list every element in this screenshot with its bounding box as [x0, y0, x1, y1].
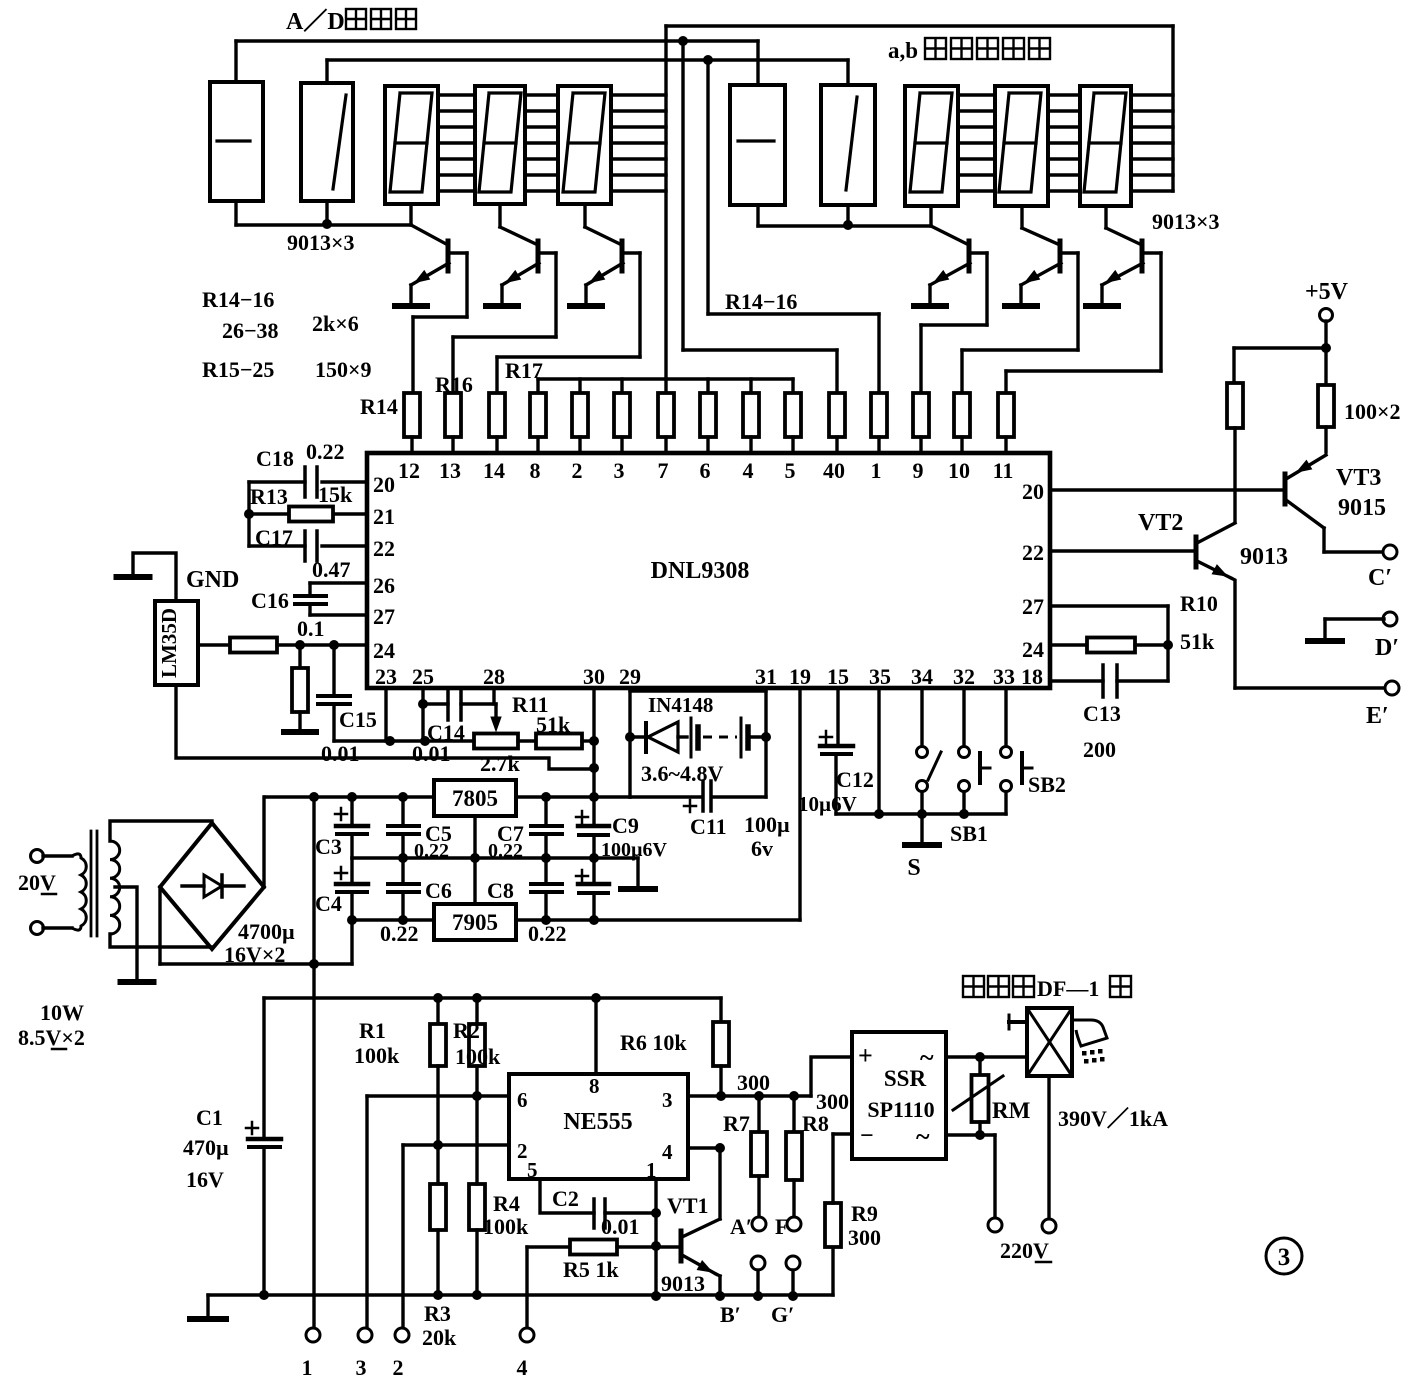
junction R11 right — [589, 736, 599, 746]
svg-text:26−38: 26−38 — [222, 318, 279, 343]
svg-text:20: 20 — [373, 472, 395, 497]
svg-text:C1: C1 — [196, 1105, 223, 1130]
sensor U2 LM35D — [155, 601, 198, 685]
svg-text:E′: E′ — [1366, 703, 1389, 729]
junction VT1 emitter on ground rail — [715, 1291, 725, 1301]
svg-text:220V: 220V — [1000, 1238, 1049, 1263]
wire center tap to ground — [115, 887, 137, 979]
svg-text:R14−16: R14−16 — [202, 287, 274, 312]
svg-text:R10: R10 — [1180, 591, 1218, 616]
ground — [486, 303, 518, 309]
wire NE555 V+ rail — [264, 996, 721, 999]
segment bus lines right group — [958, 93, 995, 96]
svg-text:R14−16: R14−16 — [725, 289, 797, 314]
svg-text:22: 22 — [1022, 540, 1044, 565]
svg-text:16V×2: 16V×2 — [224, 942, 285, 967]
svg-text:R9: R9 — [851, 1201, 878, 1226]
switch S at pin 34 — [920, 688, 923, 747]
IC U1 DNL9308 — [367, 453, 1050, 688]
svg-text:RM: RM — [992, 1098, 1031, 1123]
dashed wire between cells — [703, 736, 737, 739]
terminal E' — [1385, 681, 1399, 695]
regulator U3 7805 — [434, 780, 516, 816]
svg-text:32: 32 — [953, 664, 975, 689]
wire pin 8 to rail — [594, 998, 597, 1074]
junction diode row left — [625, 732, 635, 742]
junction pin1 ground — [651, 1291, 661, 1301]
svg-text:5: 5 — [785, 458, 796, 483]
valve shower head — [1072, 1020, 1107, 1046]
resistor R7 300 — [757, 1096, 760, 1132]
svg-text:6: 6 — [517, 1088, 528, 1112]
enclosure of preset display group — [666, 24, 1173, 27]
svg-text:390V／1kA: 390V／1kA — [1058, 1106, 1168, 1131]
resistor 100 left of pair — [1232, 348, 1235, 383]
common wire left cells 1-3 — [234, 201, 237, 225]
ground S — [920, 814, 923, 842]
svg-text:+: + — [858, 1041, 873, 1070]
resistor 100 right of pair — [1324, 348, 1327, 385]
svg-text:9013: 9013 — [661, 1271, 705, 1296]
diode D1 IN4148 — [630, 735, 646, 738]
potentiometer RP 2.7k — [474, 734, 518, 749]
svg-text:21: 21 — [373, 504, 395, 529]
pushbutton SB1 at pin 32 — [962, 688, 965, 747]
svg-text:LM35D: LM35D — [157, 608, 181, 678]
wire pin 3 output — [688, 1094, 811, 1097]
capacitor C2 0.01 pin5 to pin1 — [540, 1179, 594, 1213]
svg-text:VT2: VT2 — [1138, 510, 1183, 536]
junction R1/R3 on pin2 wire — [433, 1140, 443, 1150]
transistor VT2 9013 — [1194, 537, 1199, 567]
svg-text:S: S — [907, 855, 920, 881]
svg-text:C15: C15 — [339, 707, 377, 732]
capacitor C12 10u6V at pin 15 — [836, 688, 839, 746]
ground center tap — [121, 979, 154, 985]
svg-text:100×2: 100×2 — [1344, 399, 1401, 424]
wire bridge + to rail — [262, 797, 265, 887]
svg-text:30: 30 — [583, 664, 605, 689]
svg-text:0.22: 0.22 — [380, 921, 419, 946]
wire +V rail — [265, 795, 434, 798]
svg-text:D′: D′ — [1375, 635, 1399, 661]
capacitor C1 470u 16V — [262, 998, 265, 1139]
svg-text:C4: C4 — [315, 891, 342, 916]
svg-text:C16: C16 — [251, 588, 289, 613]
svg-text:300: 300 — [848, 1225, 881, 1250]
capacitor C13 200 at pin 18 — [1050, 679, 1103, 682]
wire VT2 emitter to E' — [1235, 686, 1386, 689]
svg-text:470µ: 470µ — [183, 1135, 229, 1160]
wire SSR ac out top — [946, 1055, 1027, 1058]
junction R10 right — [1163, 640, 1173, 650]
backup battery box with diode IN4148 — [630, 689, 766, 692]
svg-text:DNL9308: DNL9308 — [651, 558, 750, 584]
svg-text:6v: 6v — [751, 836, 773, 861]
svg-text:C2: C2 — [552, 1186, 579, 1211]
wire pin 30 down to +5V rail — [592, 688, 595, 741]
wire +5V to resistors — [1234, 346, 1326, 349]
svg-text:C6: C6 — [425, 878, 452, 903]
wire cell4 right bottom to Q2R base — [1020, 206, 1023, 228]
wire -V rail — [352, 918, 434, 921]
wire switch common — [836, 812, 1006, 815]
wire valve to 220V right terminal — [1047, 1076, 1050, 1219]
capacitor C10 100u — [592, 858, 595, 884]
svg-text:3: 3 — [662, 1088, 673, 1112]
svg-text:7805: 7805 — [452, 786, 498, 811]
svg-text:20V: 20V — [18, 870, 56, 895]
capacitor C15 0.01 — [332, 645, 335, 696]
wire pin 22 to VT2 base — [1050, 549, 1196, 552]
ground — [284, 729, 316, 735]
svg-text:C′: C′ — [1368, 565, 1392, 591]
terminal G' — [786, 1256, 800, 1270]
svg-text:7905: 7905 — [452, 910, 498, 935]
svg-text:51k: 51k — [1180, 629, 1215, 654]
svg-text:150×9: 150×9 — [315, 357, 372, 382]
svg-text:15: 15 — [827, 664, 849, 689]
ground — [1086, 303, 1118, 309]
svg-text:9013: 9013 — [1240, 544, 1288, 570]
junction pin24 node — [295, 640, 305, 650]
wire terminal 4 to R5 — [525, 1247, 528, 1328]
ground — [1005, 303, 1037, 309]
wire secondary bottom to bridge — [110, 934, 212, 947]
svg-text:2: 2 — [572, 458, 583, 483]
resistor R13 15k at pin 21 — [333, 512, 367, 515]
svg-text:R6 10k: R6 10k — [620, 1030, 687, 1055]
svg-text:0.22: 0.22 — [528, 921, 567, 946]
wire segment-resistor top bus — [538, 377, 793, 380]
junction R13 left — [244, 509, 254, 519]
terminal 2 — [395, 1328, 409, 1342]
svg-text:24: 24 — [1022, 637, 1044, 662]
junction RM bottom — [975, 1130, 985, 1140]
svg-text:VT3: VT3 — [1336, 465, 1381, 491]
svg-text:100µ: 100µ — [744, 812, 790, 837]
svg-text:GND: GND — [186, 567, 239, 593]
svg-text:A′: A′ — [730, 1214, 752, 1239]
transformer secondary — [110, 841, 120, 934]
wire ground rail bottom — [208, 1293, 833, 1296]
svg-text:8.5V×2: 8.5V×2 — [18, 1025, 85, 1050]
svg-text:NE555: NE555 — [563, 1109, 632, 1135]
svg-text:R14: R14 — [360, 394, 398, 419]
svg-text:+5V: +5V — [1305, 279, 1349, 305]
svg-text:25: 25 — [412, 664, 434, 689]
resistor row R14-R25 (15 resistors to IC pins) — [404, 393, 420, 437]
wire pin 25 down — [421, 688, 424, 741]
wire A: common line of '-' and '1' cells (both groups) to pin-40 resistor — [234, 41, 237, 84]
capacitor C16 0.1 between pins 26-27 — [310, 581, 367, 584]
svg-text:10: 10 — [948, 458, 970, 483]
svg-text:R3: R3 — [424, 1301, 451, 1326]
valve inlet stub — [1009, 1020, 1027, 1024]
svg-text:9: 9 — [913, 458, 924, 483]
svg-text:35: 35 — [869, 664, 891, 689]
svg-text:0.22: 0.22 — [306, 439, 345, 464]
svg-text:100k: 100k — [455, 1044, 501, 1069]
transistor VT3 9015 — [1283, 474, 1288, 504]
svg-text:4: 4 — [743, 458, 754, 483]
resistor to ground below pin 24 — [298, 645, 301, 668]
svg-text:40: 40 — [823, 458, 845, 483]
svg-text:9013×3: 9013×3 — [287, 230, 355, 255]
junction +5V split — [1321, 343, 1331, 353]
display cell 4 left (digit 8) — [475, 86, 525, 204]
capacitor C11 100u 6v in box bottom edge — [630, 795, 700, 798]
svg-text:300: 300 — [737, 1070, 770, 1095]
ground bottom rail — [190, 1316, 226, 1322]
svg-text:27: 27 — [1022, 594, 1044, 619]
resistor R11 51k — [518, 739, 536, 742]
junction wire B — [703, 55, 713, 65]
transistor 9013 digit driver — [1058, 241, 1063, 271]
transistor 9013 digit driver — [536, 241, 541, 271]
transistor 9013 digit driver — [446, 241, 451, 271]
svg-text:8: 8 — [530, 458, 541, 483]
svg-text:a,b: a,b — [888, 38, 918, 63]
bridge rectifier — [160, 823, 264, 949]
svg-text:4700µ: 4700µ — [238, 919, 295, 944]
svg-text:26: 26 — [373, 573, 395, 598]
wire B: second common line to pin-1 resistor — [325, 60, 328, 85]
svg-text:18: 18 — [1021, 664, 1043, 689]
label solenoid valve DF-1 (电磁阀DF-1型) — [963, 976, 984, 997]
svg-text:C9: C9 — [612, 813, 639, 838]
svg-text:100k: 100k — [354, 1043, 400, 1068]
wire pin 2 to terminal 2 — [403, 1143, 509, 1146]
junction raw negative — [309, 959, 319, 969]
wire cell5 left bottom to Q3L base — [583, 204, 586, 227]
svg-text:7: 7 — [658, 458, 669, 483]
svg-text:12: 12 — [398, 458, 420, 483]
svg-text:29: 29 — [619, 664, 641, 689]
capacitor C9 100u6V — [592, 797, 595, 826]
svg-text:R1: R1 — [359, 1018, 386, 1043]
resistor R9 300 — [831, 1247, 834, 1295]
resistor R8 300 — [792, 1096, 795, 1132]
svg-text:C18: C18 — [256, 446, 294, 471]
capacitor C8 0.22 — [544, 858, 547, 884]
svg-text:R8: R8 — [802, 1111, 829, 1136]
display cell 4 right (digit 8) — [995, 86, 1048, 206]
svg-text:−: − — [860, 1123, 874, 1149]
wire base Q1R — [931, 226, 969, 245]
svg-text:2: 2 — [393, 1355, 404, 1380]
wire cell5 right bottom to Q3R base — [1104, 206, 1107, 228]
svg-text:31: 31 — [755, 664, 777, 689]
svg-text:9013×3: 9013×3 — [1152, 209, 1220, 234]
svg-text:VT1: VT1 — [667, 1193, 709, 1218]
varistor RM — [978, 1057, 981, 1075]
wire VT3 collector to C' — [1324, 550, 1384, 553]
figure number 3 — [1266, 1238, 1302, 1274]
svg-text:2: 2 — [517, 1139, 528, 1163]
svg-text:1: 1 — [871, 458, 882, 483]
regulator U4 7905 — [434, 904, 516, 940]
svg-text:F: F — [775, 1214, 788, 1239]
svg-text:SB1: SB1 — [950, 821, 988, 846]
svg-text:C11: C11 — [690, 814, 727, 839]
wire 0V rail — [352, 856, 638, 859]
svg-text:6: 6 — [700, 458, 711, 483]
junction pin23 — [385, 736, 395, 746]
wire pin 19 down to -V rail — [798, 688, 801, 920]
terminal 1 — [306, 1328, 320, 1342]
svg-text:10W: 10W — [40, 1000, 84, 1025]
svg-text:33: 33 — [993, 664, 1015, 689]
wire cell4 left bottom to Q2L base — [498, 204, 501, 227]
wire regulators common — [473, 816, 476, 904]
display cell 1 right (minus sign) — [730, 85, 785, 205]
svg-text:11: 11 — [993, 458, 1014, 483]
wire LM35D output to pin 24 — [198, 643, 230, 646]
svg-text:200: 200 — [1083, 737, 1116, 762]
junction R6 bottom — [716, 1091, 726, 1101]
svg-text:2k×6: 2k×6 — [312, 311, 359, 336]
pushbutton SB2 at pin 33 — [1004, 688, 1007, 747]
svg-text:22: 22 — [373, 536, 395, 561]
ground of 0V rail — [636, 858, 639, 886]
capacitor C5 0.22 — [401, 797, 404, 826]
wire pin 4 to VT1 collector — [688, 1146, 720, 1149]
svg-text:3: 3 — [614, 458, 625, 483]
svg-text:R7: R7 — [723, 1111, 750, 1136]
svg-text:A／D: A／D — [286, 8, 345, 35]
display cell 5 left (digit 8) — [558, 86, 611, 204]
svg-text:0.22: 0.22 — [414, 840, 449, 862]
solenoid valve DF-1 box — [1027, 1008, 1072, 1076]
display cell 3 left (digit 8) — [385, 86, 438, 204]
wire pin 35 down — [877, 688, 880, 814]
capacitor C17 0.47 at pin 22 — [322, 544, 367, 547]
junctions on NE555 rail — [433, 993, 443, 1003]
bridge inner diode — [182, 884, 204, 887]
junction wire A — [678, 36, 688, 46]
svg-text:20: 20 — [1022, 479, 1044, 504]
wire pin 23 down — [384, 688, 387, 741]
wire pin 28 to pot wiper — [492, 688, 495, 704]
junction C14 left — [418, 699, 428, 709]
ground — [914, 303, 946, 309]
ground — [570, 303, 602, 309]
svg-text:IN4148: IN4148 — [648, 693, 713, 717]
wire pin3 to SSR + — [811, 1057, 852, 1096]
capacitor C7 0.22 — [544, 797, 547, 826]
svg-text:20k: 20k — [422, 1325, 457, 1350]
transformer T1 20V — [31, 850, 44, 863]
terminal B' — [751, 1256, 765, 1270]
svg-text:SP1110: SP1110 — [867, 1097, 934, 1122]
transistor VT1 9013 — [679, 1231, 684, 1261]
resistor divider at pin 24 — [230, 638, 277, 653]
solid state relay SSR SP1110 — [852, 1032, 946, 1159]
resistor R5 1k — [570, 1240, 617, 1255]
svg-text:4: 4 — [517, 1355, 528, 1380]
svg-text:R2: R2 — [453, 1018, 480, 1043]
wire SSR minus to R9 — [833, 1132, 852, 1135]
svg-text:19: 19 — [789, 664, 811, 689]
terminal 3 — [358, 1328, 372, 1342]
junction RM top — [975, 1052, 985, 1062]
junctions -V rail — [398, 915, 408, 925]
terminal 4 — [520, 1328, 534, 1342]
IC U5 NE555 — [509, 1074, 688, 1179]
svg-text:G′: G′ — [771, 1302, 794, 1327]
capacitor C3 4700u — [350, 797, 353, 826]
junction pin4 — [715, 1143, 725, 1153]
display cell 5 right (digit 8) — [1080, 86, 1131, 206]
svg-text:0.01: 0.01 — [601, 1214, 640, 1239]
transistor 9013 digit driver — [620, 241, 625, 271]
wire SSR ac out bottom — [946, 1133, 995, 1136]
svg-text:5: 5 — [527, 1158, 538, 1182]
svg-text:R4: R4 — [493, 1191, 520, 1216]
svg-text:0.1: 0.1 — [297, 616, 325, 641]
svg-text:C3: C3 — [315, 834, 342, 859]
capacitor C4 4700u — [350, 858, 353, 884]
svg-text:14: 14 — [483, 458, 505, 483]
terminal D' with ground — [1383, 612, 1397, 626]
transistor 9013 digit driver — [967, 241, 972, 271]
wire secondary top to bridge — [110, 821, 212, 841]
wire pin 6 to terminal 3 — [367, 1094, 509, 1097]
junctions on +V rail — [309, 792, 319, 802]
svg-text:16V: 16V — [186, 1167, 224, 1192]
svg-text:B′: B′ — [720, 1302, 741, 1327]
wire bridge - down — [158, 887, 161, 964]
junction LM35D return — [589, 763, 599, 773]
svg-text:9015: 9015 — [1338, 495, 1386, 521]
svg-text:SSR: SSR — [884, 1066, 927, 1091]
svg-text:15k: 15k — [318, 482, 353, 507]
junctions 0V rail — [398, 853, 408, 863]
terminal A' — [752, 1217, 766, 1231]
resistor R2 100k — [475, 998, 478, 1024]
junction pin35 — [874, 809, 884, 819]
wire to 220V left terminal — [993, 1135, 996, 1218]
junction S — [917, 809, 927, 819]
svg-text:C13: C13 — [1083, 701, 1121, 726]
terminal F' — [787, 1217, 801, 1231]
resistor R3 20k — [430, 1184, 446, 1230]
display cell 3 right (digit 8) — [905, 86, 958, 206]
common wire right cells 1-3 — [756, 205, 759, 226]
junction diode row right — [761, 732, 771, 742]
junctions R3 R4 bottoms — [433, 1290, 443, 1300]
svg-text:~: ~ — [916, 1122, 930, 1151]
resistor R1 100k — [436, 998, 439, 1024]
svg-text:1: 1 — [302, 1355, 313, 1380]
transformer core — [90, 831, 93, 936]
wire LM35D to GND — [133, 553, 176, 601]
svg-text:100k: 100k — [483, 1214, 529, 1239]
resistor R6 10k — [719, 998, 722, 1022]
svg-text:24: 24 — [373, 638, 395, 663]
wire pin 20 to VT3 base — [1050, 488, 1285, 491]
display cell 1 left (minus sign) — [210, 82, 263, 201]
display cell 2 left (digit 1) — [301, 83, 353, 201]
junction R5 node — [651, 1241, 661, 1251]
svg-text:2.7k: 2.7k — [480, 751, 521, 776]
wire C4 to bridge negative — [350, 920, 353, 964]
junction SB1 — [959, 809, 969, 819]
junction common right — [843, 220, 853, 230]
display cell 2 right (digit 1) — [821, 85, 875, 205]
svg-text:0.01: 0.01 — [321, 741, 360, 766]
